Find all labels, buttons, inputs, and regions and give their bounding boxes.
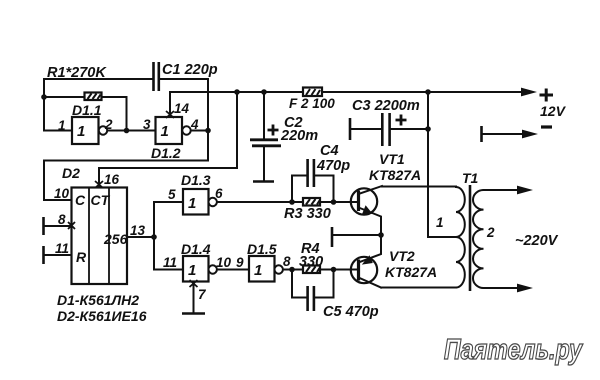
svg-text:C1 220p: C1 220p [162, 62, 218, 78]
capacitor C2 [250, 140, 281, 146]
wire D1.2 output to node C [191, 130, 208, 132]
svg-text:256: 256 [103, 231, 128, 247]
wire pin 8 lead [44, 225, 72, 227]
svg-text:1: 1 [436, 215, 444, 230]
svg-text:C: C [75, 192, 86, 208]
junction dot C4 right [331, 199, 337, 205]
junction dot C5 left [289, 267, 295, 273]
resistor R1 left lead [44, 96, 85, 98]
junction dot rail/center-tap [425, 89, 431, 95]
arrowhead output bottom [517, 284, 533, 293]
svg-text:3: 3 [143, 117, 151, 132]
svg-text:VT1: VT1 [379, 151, 405, 167]
winding 1 [456, 187, 465, 288]
svg-text:D1.4: D1.4 [181, 241, 211, 257]
svg-text:470p: 470p [316, 158, 350, 174]
label + (C2) [268, 125, 279, 136]
node A junction dot [41, 94, 47, 100]
capacitor C1 [154, 62, 159, 91]
pin 16 X mark [95, 181, 103, 188]
op-gate D1.2 [156, 117, 191, 144]
wire C4 left branch [292, 176, 306, 203]
svg-text:1: 1 [254, 262, 262, 279]
svg-text:R3 330: R3 330 [284, 206, 331, 222]
junction dot C5 right [331, 267, 337, 273]
svg-text:~220V: ~220V [515, 233, 559, 249]
svg-text:11: 11 [55, 241, 69, 256]
wire D1.1 out to D1.2 in [108, 130, 156, 132]
svg-text:D1.1: D1.1 [72, 102, 102, 118]
arrowhead output top [517, 186, 533, 195]
svg-text:1: 1 [188, 262, 196, 279]
svg-text:D2: D2 [62, 165, 80, 181]
svg-text:C4: C4 [320, 143, 339, 159]
wire node A top (C1 left to left vertical) [44, 79, 153, 131]
op-gate D1.5 [249, 256, 283, 282]
pin 14 X mark [166, 111, 174, 118]
wire C2 bottom [263, 147, 265, 181]
wire VT1 collector to winding top [382, 186, 456, 188]
counter D2 [72, 188, 128, 285]
capacitor C3 [382, 113, 389, 146]
wire C5 left branch [292, 270, 306, 298]
arrowhead -12V [522, 130, 538, 139]
core T1 [469, 185, 472, 291]
wire pin13 vertical to gate inputs [153, 202, 155, 270]
svg-text:10: 10 [216, 255, 232, 270]
wire pin 7 ground drop [193, 282, 195, 314]
svg-text:5: 5 [168, 187, 176, 202]
label minus [541, 125, 552, 128]
svg-text:16: 16 [104, 172, 120, 187]
svg-text:D2-К561ИЕ16: D2-К561ИЕ16 [57, 308, 147, 324]
svg-text:1: 1 [161, 123, 169, 140]
label + (12V) [540, 89, 554, 102]
svg-text:VT2: VT2 [389, 248, 415, 264]
junction dot emitters [378, 232, 384, 238]
svg-text:D1-К561ЛН2: D1-К561ЛН2 [57, 292, 139, 308]
svg-text:10: 10 [54, 186, 70, 201]
op-gate D1.3 [183, 189, 217, 215]
svg-text:8: 8 [283, 254, 291, 269]
terminal bar pin 7 [182, 312, 205, 315]
wire C3 left lead [350, 128, 381, 130]
svg-text:KT827A: KT827A [385, 264, 437, 280]
pin 8 X mark [68, 222, 75, 229]
svg-text:12V: 12V [540, 103, 567, 119]
svg-text:7: 7 [198, 287, 207, 302]
svg-text:CT: CT [91, 192, 111, 208]
svg-text:C3 2200m: C3 2200m [352, 98, 420, 114]
svg-text:T1: T1 [462, 170, 479, 186]
svg-text:C5 470p: C5 470p [323, 304, 379, 320]
terminal bar pin 11 [42, 246, 45, 264]
junction dot C3/center-tap [425, 126, 431, 132]
svg-text:8: 8 [58, 212, 66, 227]
svg-text:9: 9 [236, 255, 244, 270]
svg-text:13: 13 [130, 223, 146, 238]
terminal bar C2 bottom [253, 180, 274, 183]
wire D1.5 out to R4 [283, 269, 303, 271]
resistor R1 right lead [102, 97, 127, 131]
resistor R4 [303, 266, 320, 274]
wire C4 right branch [315, 176, 334, 203]
pin 7 X mark [190, 280, 198, 287]
terminal bar -12V [480, 126, 483, 142]
fuse F2 [303, 88, 322, 97]
svg-text:R: R [76, 249, 87, 265]
wire pin 11 lead [44, 254, 72, 256]
wire D1.4 out to D1.5 [217, 269, 249, 271]
transistor VT1 [351, 186, 382, 235]
node C junction dot (D1.2 output) [205, 128, 211, 134]
wire VT2 collector to winding bottom [381, 287, 456, 289]
wire C1 right to vertical [159, 79, 208, 161]
wire common emitter to bar [332, 234, 381, 236]
wire R3 right to VT1 base [320, 201, 358, 203]
svg-text:1: 1 [77, 123, 85, 140]
wire center tap vertical [428, 92, 456, 237]
arrowhead +12V [521, 88, 537, 97]
svg-text:KT827A: KT827A [369, 167, 421, 183]
svg-text:Паятель.ру: Паятель.ру [444, 334, 583, 366]
svg-text:D1.5: D1.5 [247, 241, 277, 257]
terminal bar C3 left [349, 118, 352, 140]
wire output top lead [484, 189, 521, 191]
svg-text:330: 330 [299, 254, 323, 270]
capacitor C2 wire top [263, 92, 265, 138]
svg-text:6: 6 [215, 186, 223, 201]
winding 2 [473, 190, 484, 288]
label + (C3) [396, 115, 407, 126]
wire output bottom lead [484, 287, 521, 289]
resistor R3 [303, 198, 320, 206]
svg-text:R1*270K: R1*270K [47, 65, 107, 81]
svg-text:1: 1 [188, 195, 196, 212]
svg-text:F 2 100: F 2 100 [289, 96, 335, 111]
op-gate D1.1 [72, 117, 107, 144]
wire feedback node C to D2 pin 10 [44, 161, 208, 201]
svg-text:D1.2: D1.2 [151, 145, 181, 161]
wire D1.3 out to R3 [217, 201, 303, 203]
node B junction dot [124, 128, 130, 134]
svg-text:14: 14 [174, 101, 190, 116]
capacitor C4 [308, 159, 314, 187]
resistor R1 [85, 93, 102, 101]
wire +12V top rail [170, 91, 523, 93]
svg-text:11: 11 [163, 255, 177, 270]
wire D2 pin 16 power branch [99, 92, 237, 186]
terminal bar emitters [331, 227, 334, 247]
capacitor C5 [308, 286, 314, 311]
junction dot rail/C2 [261, 89, 267, 95]
wire C3 right lead [391, 128, 428, 130]
transistor VT2 [351, 257, 381, 288]
wire C5 right branch [315, 270, 334, 298]
junction dot rail/pin16 [234, 89, 240, 95]
junction dot C4 left [289, 199, 295, 205]
wire pin 14 power drop [169, 92, 171, 116]
svg-text:1: 1 [58, 118, 66, 133]
svg-text:220m: 220m [280, 128, 318, 144]
wire R4 right to VT2 base [320, 269, 358, 271]
terminal bar pin 8 [42, 217, 45, 235]
wire -12V lead [482, 133, 525, 135]
wire D1.4 input lead [154, 269, 183, 271]
wire pin 13 output [127, 236, 154, 238]
wire emitter node down to VT2 [359, 235, 382, 263]
op-gate D1.4 [183, 256, 217, 282]
wire D1.1 input lead pin 1 [44, 130, 72, 132]
wire D1.3 input lead [154, 201, 183, 203]
svg-text:D1.3: D1.3 [181, 172, 211, 188]
svg-text:2: 2 [486, 225, 495, 240]
VT2 emitter arrow [362, 255, 373, 264]
junction dot pin13 node [151, 234, 157, 240]
